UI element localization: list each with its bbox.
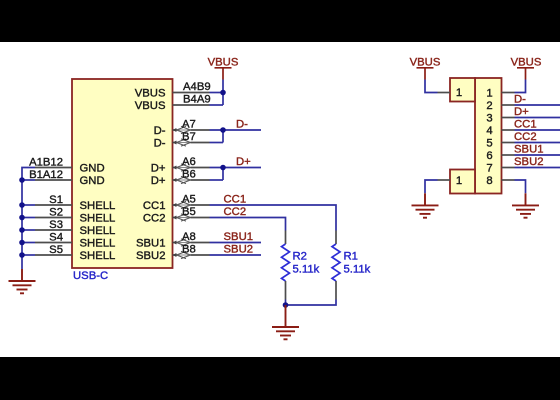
power port VBUS (J1 left) — [410, 57, 441, 80]
pin S2 (SHELL) — [35, 207, 115, 225]
net D- wires — [210, 130, 262, 143]
pin B5 (CC2) — [143, 206, 210, 225]
svg-text:B4A9: B4A9 — [183, 94, 211, 106]
svg-text:CC2: CC2 — [143, 213, 166, 225]
svg-text:B7: B7 — [182, 131, 196, 143]
resistor R1 — [332, 231, 371, 300]
net label CC1 (J1) — [514, 119, 537, 131]
svg-text:5: 5 — [486, 138, 492, 150]
svg-text:B6: B6 — [182, 169, 196, 181]
J1 pin 2 wire (D-) — [502, 104, 560, 106]
net label CC2 — [224, 206, 247, 218]
J1 pin number 5 — [486, 138, 492, 150]
svg-text:D+: D+ — [514, 106, 529, 118]
net CC1 wire — [210, 205, 337, 231]
svg-text:SBU1: SBU1 — [136, 238, 166, 250]
net SBU1 wire — [210, 242, 262, 244]
junction B1A12 — [19, 177, 25, 183]
svg-text:3: 3 — [486, 113, 492, 125]
junction S1 — [19, 202, 25, 208]
connector J1 body — [475, 78, 502, 194]
junction S3 — [19, 227, 25, 233]
wire J1 shell bottom to ground — [425, 180, 450, 193]
junction D+ — [220, 165, 226, 171]
svg-text:SHELL: SHELL — [80, 200, 116, 212]
svg-text:5.11k: 5.11k — [293, 264, 320, 276]
connector U2 body — [72, 79, 173, 268]
svg-text:S5: S5 — [49, 244, 63, 256]
J1 pin number 1 — [486, 88, 492, 100]
svg-text:SHELL: SHELL — [80, 238, 116, 250]
svg-text:7: 7 — [486, 163, 492, 175]
connector J1 shell box top (pin 1) — [450, 78, 475, 102]
svg-text:VBUS: VBUS — [511, 57, 542, 69]
net label D+ (J1) — [514, 106, 529, 118]
refdes label USB-C — [73, 270, 108, 282]
pin A8 (SBU1) — [136, 231, 210, 250]
pin S1 (SHELL) — [35, 194, 115, 212]
net label SBU2 (J1) — [514, 156, 544, 168]
ground (shell bus) — [9, 269, 36, 293]
pin B4A9 (VBUS) — [135, 94, 211, 113]
pin A4B9 (VBUS) — [135, 81, 211, 100]
connector J1 shell box bottom (pin 1) — [450, 170, 475, 194]
J1 pin number 8 — [486, 175, 492, 187]
svg-text:A8: A8 — [182, 231, 196, 243]
J1 pin number 2 — [486, 100, 492, 112]
svg-text:D-: D- — [154, 138, 166, 150]
J1 pin number 7 — [486, 163, 492, 175]
wire R2/R1 to ground — [286, 300, 337, 306]
svg-text:SBU1: SBU1 — [224, 231, 254, 243]
ground (R1/R2) — [272, 305, 299, 339]
svg-text:1: 1 — [456, 87, 462, 99]
svg-text:CC1: CC1 — [143, 200, 166, 212]
junction S4 — [19, 240, 25, 246]
svg-text:S4: S4 — [49, 232, 63, 244]
net SBU2 wire — [210, 254, 262, 256]
J1 pin 7 wire (SBU2) — [502, 167, 560, 169]
net label D- — [236, 119, 248, 131]
wire GND bus — [22, 168, 35, 270]
svg-text:SHELL: SHELL — [80, 250, 116, 262]
svg-text:B8: B8 — [182, 244, 196, 256]
svg-text:SHELL: SHELL — [80, 225, 116, 237]
svg-text:B5: B5 — [182, 206, 196, 218]
svg-text:USB-C: USB-C — [73, 270, 108, 282]
resistor R2 — [282, 231, 320, 300]
J1 pin 4 wire (CC1) — [502, 129, 560, 131]
svg-text:D+: D+ — [151, 163, 166, 175]
ground (J1 left) — [412, 193, 439, 217]
svg-text:CC1: CC1 — [514, 119, 537, 131]
svg-text:VBUS: VBUS — [135, 88, 166, 100]
pin S3 (SHELL) — [35, 219, 115, 237]
svg-text:D-: D- — [236, 119, 248, 131]
pin A7 (D-) — [154, 119, 210, 138]
pin B7 (D-) — [154, 131, 210, 150]
svg-text:SBU1: SBU1 — [514, 144, 544, 156]
pin S5 (SHELL) — [35, 244, 115, 262]
svg-text:1: 1 — [456, 175, 462, 187]
svg-text:SBU2: SBU2 — [136, 250, 166, 262]
net label SBU2 — [224, 244, 254, 256]
svg-text:S3: S3 — [49, 219, 63, 231]
svg-text:D-: D- — [154, 125, 166, 137]
J1 pin 3 wire (D+) — [502, 117, 560, 119]
net label SBU1 (J1) — [514, 144, 544, 156]
svg-text:SBU2: SBU2 — [514, 156, 544, 168]
svg-text:4: 4 — [486, 125, 492, 137]
svg-text:2: 2 — [486, 100, 492, 112]
pin A1B12 (GND) — [29, 157, 105, 175]
svg-text:S2: S2 — [49, 207, 63, 219]
svg-text:VBUS: VBUS — [135, 100, 166, 112]
pin B1A12 (GND) — [29, 169, 105, 187]
svg-text:D+: D+ — [236, 156, 251, 168]
net D+ wires — [210, 168, 262, 181]
svg-text:6: 6 — [486, 150, 492, 162]
svg-text:A6: A6 — [182, 156, 196, 168]
net CC2 wire — [210, 218, 286, 231]
J1 pin number 3 — [486, 113, 492, 125]
svg-text:VBUS: VBUS — [208, 57, 239, 69]
svg-text:R1: R1 — [344, 251, 358, 263]
svg-text:CC2: CC2 — [224, 206, 247, 218]
svg-text:5.11k: 5.11k — [344, 264, 371, 276]
pin B8 (SBU2) — [136, 244, 210, 263]
J1 pin 6 wire (SBU1) — [502, 154, 560, 156]
junction S5 — [19, 252, 25, 258]
svg-text:S1: S1 — [49, 194, 63, 206]
svg-text:8: 8 — [486, 175, 492, 187]
svg-text:A7: A7 — [182, 119, 196, 131]
junction VBUS — [220, 90, 226, 96]
svg-text:CC1: CC1 — [224, 194, 247, 206]
svg-text:GND: GND — [80, 175, 105, 187]
ground (J1 right) — [512, 193, 539, 217]
svg-text:CC2: CC2 — [514, 131, 537, 143]
svg-text:SBU2: SBU2 — [224, 244, 254, 256]
wire VBUS to J1 pin 1 — [502, 80, 526, 93]
power port VBUS (U2) — [208, 57, 239, 80]
J1 pin number 4 — [486, 125, 492, 137]
svg-text:A4B9: A4B9 — [183, 81, 211, 93]
svg-text:VBUS: VBUS — [410, 57, 441, 69]
junction R2/R1 ground — [283, 302, 289, 308]
svg-text:D-: D- — [514, 94, 526, 106]
pin B6 (D+) — [151, 169, 210, 188]
J1 pin 5 wire (CC2) — [502, 142, 560, 144]
power port VBUS (J1 right) — [511, 57, 542, 80]
junction D- — [220, 127, 226, 133]
svg-text:1: 1 — [486, 88, 492, 100]
svg-text:A5: A5 — [182, 194, 196, 206]
svg-text:R2: R2 — [293, 251, 307, 263]
junction S2 — [19, 215, 25, 221]
pin A5 (CC1) — [143, 194, 210, 213]
svg-text:SHELL: SHELL — [80, 213, 116, 225]
pin A6 (D+) — [151, 156, 210, 175]
net VBUS wires — [210, 80, 224, 106]
J1 pin number 6 — [486, 150, 492, 162]
net label D+ — [236, 156, 251, 168]
net label CC1 — [224, 194, 247, 206]
J1 pin 8 wire to ground — [502, 180, 526, 193]
wire VBUS to J1 shell top — [425, 80, 450, 93]
net label D- (J1) — [514, 94, 526, 106]
net label CC2 (J1) — [514, 131, 537, 143]
svg-text:GND: GND — [80, 163, 105, 175]
svg-text:D+: D+ — [151, 175, 166, 187]
pin S4 (SHELL) — [35, 232, 115, 250]
net label SBU1 — [224, 231, 254, 243]
